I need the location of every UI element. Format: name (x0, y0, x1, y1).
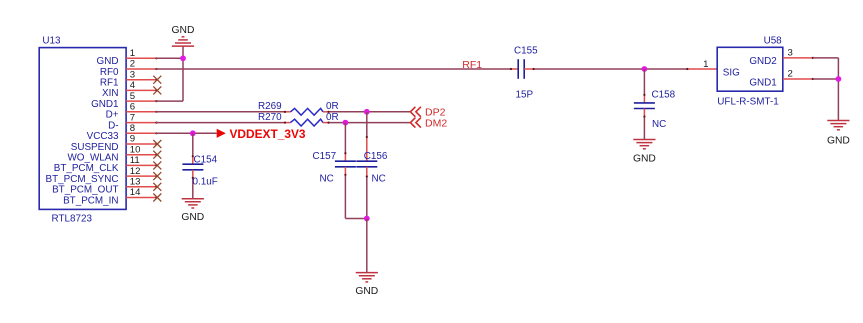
svg-text:C156: C156 (364, 151, 388, 162)
svg-text:BT_PCM_SYNC: BT_PCM_SYNC (46, 174, 119, 185)
svg-text:12: 12 (130, 166, 141, 177)
svg-text:BT_PCM_CLK: BT_PCM_CLK (54, 163, 119, 174)
svg-text:RF0: RF0 (100, 67, 119, 78)
svg-text:14: 14 (130, 187, 141, 198)
svg-text:RF1: RF1 (100, 78, 119, 89)
svg-text:SUSPEND: SUSPEND (71, 142, 119, 153)
svg-text:NC: NC (652, 119, 666, 130)
svg-text:D-: D- (108, 120, 118, 131)
svg-text:XIN: XIN (102, 88, 118, 99)
svg-text:NC: NC (372, 173, 386, 184)
svg-text:R269: R269 (258, 101, 282, 112)
svg-text:5: 5 (130, 91, 135, 102)
svg-text:VDDEXT_3V3: VDDEXT_3V3 (230, 127, 306, 141)
svg-text:0.1uF: 0.1uF (193, 177, 218, 188)
svg-text:RTL8723: RTL8723 (52, 214, 93, 225)
svg-text:C157: C157 (313, 151, 337, 162)
svg-text:3: 3 (788, 48, 793, 59)
svg-text:GND: GND (172, 25, 195, 36)
svg-text:3: 3 (130, 69, 135, 80)
svg-text:GND: GND (181, 212, 204, 223)
svg-text:D+: D+ (106, 110, 119, 121)
svg-text:U13: U13 (42, 36, 61, 47)
svg-text:6: 6 (130, 102, 135, 113)
svg-text:BT_PCM_IN: BT_PCM_IN (63, 195, 118, 206)
svg-text:GND: GND (827, 136, 850, 147)
svg-text:0R: 0R (326, 112, 339, 123)
svg-text:DM2: DM2 (425, 117, 447, 129)
svg-text:11: 11 (130, 155, 140, 166)
svg-text:SIG: SIG (723, 67, 740, 78)
svg-text:GND: GND (633, 154, 656, 165)
svg-text:8: 8 (130, 123, 135, 134)
svg-text:RF1: RF1 (462, 59, 482, 71)
svg-text:BT_PCM_OUT: BT_PCM_OUT (52, 185, 118, 196)
svg-text:NC: NC (320, 173, 334, 184)
svg-text:C155: C155 (514, 46, 538, 57)
svg-text:C158: C158 (652, 90, 676, 101)
svg-text:0R: 0R (326, 101, 339, 112)
svg-text:GND1: GND1 (749, 77, 777, 88)
svg-text:VCC33: VCC33 (87, 131, 119, 142)
svg-text:2: 2 (130, 59, 135, 70)
svg-text:2: 2 (788, 69, 793, 80)
svg-text:9: 9 (130, 134, 135, 145)
svg-text:GND: GND (355, 286, 378, 297)
svg-text:15P: 15P (516, 90, 534, 101)
svg-text:13: 13 (130, 177, 141, 188)
svg-text:WO_WLAN: WO_WLAN (67, 153, 118, 164)
svg-text:4: 4 (130, 80, 136, 91)
svg-text:GND1: GND1 (91, 99, 119, 110)
svg-text:C154: C154 (194, 155, 218, 166)
svg-text:1: 1 (703, 59, 708, 70)
svg-text:10: 10 (130, 144, 141, 155)
svg-text:GND2: GND2 (749, 56, 776, 67)
svg-text:7: 7 (130, 112, 135, 123)
svg-text:UFL-R-SMT-1: UFL-R-SMT-1 (717, 97, 779, 108)
svg-text:1: 1 (130, 48, 135, 59)
svg-text:U58: U58 (764, 36, 783, 47)
svg-text:GND: GND (97, 56, 119, 67)
svg-text:R270: R270 (258, 112, 282, 123)
